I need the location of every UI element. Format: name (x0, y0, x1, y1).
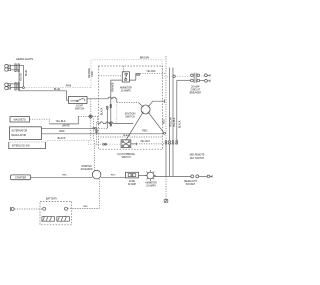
wire magneto solid run (50, 116, 79, 124)
svg-text:ALTERNATOR: ALTERNATOR (12, 129, 28, 132)
lamp HL1 (5, 64, 11, 71)
wire vertical mid cluster (92, 119, 94, 141)
connector pair (93, 127, 97, 129)
wire to terminal (199, 175, 207, 177)
wire PINK dotted headlight feed (24, 87, 91, 89)
svg-text:STARTER: STARTER (81, 165, 92, 168)
svg-text:BLACK: BLACK (20, 72, 23, 80)
bus wire v2 (169, 68, 171, 141)
wire fuse to ammeter (139, 175, 147, 177)
label headlight socket (184, 180, 198, 186)
svg-text:RED: RED (59, 130, 64, 133)
connector cluster (107, 104, 112, 109)
svg-text:HEADLIGHTS: HEADLIGHTS (16, 57, 33, 61)
battery BT1 (40, 198, 72, 225)
svg-text:ORANGE: ORANGE (88, 68, 91, 78)
wire diagonal left (126, 112, 143, 140)
wire ignition feed left (dashed) (117, 101, 139, 103)
wire dotted inner drop (116, 102, 118, 124)
wire interlock dotted to clutch switch (89, 141, 122, 145)
wire magneto dashed (30, 119, 50, 124)
svg-text:PINK: PINK (92, 71, 94, 77)
wire diagonal right (148, 112, 163, 132)
ammeter M1 (145, 170, 156, 181)
wire BLACK dotted (47, 141, 95, 143)
wire solid to circuit breaker CB2 (177, 79, 191, 81)
svg-text:MAGNETO: MAGNETO (14, 119, 26, 122)
connector row (165, 140, 178, 144)
label clutch/brake switch (117, 153, 135, 159)
wire BLUE solid to light switch (19, 91, 69, 100)
wire dashed to bus (140, 72, 166, 74)
svg-text:REGULATOR: REGULATOR (12, 134, 27, 137)
svg-text:BLUE: BLUE (26, 70, 28, 76)
wire dashed to connector (78, 115, 88, 117)
terminal battery ground (10, 207, 14, 211)
svg-text:WHITE: WHITE (62, 124, 70, 127)
lamp HL2 (5, 83, 11, 90)
terminal T1 (205, 74, 211, 77)
wire HL1 top (11, 64, 24, 66)
label fuse (128, 181, 137, 186)
label ammeter (145, 182, 157, 188)
connector pair (110, 123, 112, 126)
svg-text:RED: RED (164, 119, 166, 124)
connector J1 (headlight plug) (15, 64, 19, 90)
label circuit breaker (190, 85, 202, 94)
terminal T3 (207, 175, 212, 178)
svg-text:SWITCH: SWITCH (75, 107, 85, 110)
svg-text:YEL-BLK: YEL-BLK (140, 140, 150, 143)
engine box INTERLOCK (9, 142, 46, 149)
light switch SW1 (69, 96, 88, 103)
ground drop dashed (165, 176, 167, 199)
starter M2 (11, 175, 31, 180)
bus labels (rotated) (164, 117, 182, 128)
bus below connectors (165, 144, 167, 176)
svg-text:KEY SWITCH: KEY SWITCH (190, 158, 205, 160)
wire battery negative (15, 208, 43, 210)
node N1 (23, 87, 25, 89)
svg-text:HEADLIGHT: HEADLIGHT (184, 180, 198, 183)
node N3 (164, 132, 166, 134)
svg-text:RED: RED (62, 174, 67, 176)
svg-text:SWITCH: SWITCH (121, 157, 130, 159)
label ignition switch (125, 113, 136, 119)
fuse F1 (126, 172, 139, 178)
svg-text:SOLENOID: SOLENOID (81, 169, 93, 171)
quick disconnect (191, 175, 199, 178)
svg-text:BATTERY: BATTERY (46, 198, 58, 201)
wire dashed console lower (101, 136, 164, 138)
svg-text:CLUTCH/BRAKE: CLUTCH/BRAKE (117, 153, 135, 156)
wire starter to solenoid (31, 176, 93, 178)
connector pair (90, 115, 92, 119)
console dashed enclosure (99, 66, 163, 149)
svg-text:YEL-BLK: YEL-BLK (174, 117, 176, 127)
svg-text:BLACK: BLACK (100, 107, 103, 115)
svg-text:INTERLOCK SW.: INTERLOCK SW. (12, 145, 30, 147)
svg-text:BREAKER: BREAKER (190, 92, 202, 95)
wire HL1 bottom to HL2 (11, 70, 19, 91)
wire magneto continuation with hops (92, 116, 97, 123)
wire to circuit breaker CB1 (175, 75, 190, 77)
svg-text:BLUE: BLUE (54, 88, 61, 91)
wire WHITE (42, 127, 93, 129)
ignition switch U1 (141, 105, 150, 114)
wire HL2 bottom (11, 87, 23, 89)
svg-text:BLACK: BLACK (178, 120, 181, 128)
svg-text:RED: RED (83, 206, 88, 208)
svg-text:20 AMP: 20 AMP (128, 183, 137, 186)
label see remote (189, 155, 205, 160)
wire A1 bottom feed (111, 80, 123, 126)
connector pair (96, 130, 98, 133)
node N2 (173, 75, 175, 77)
wire A1 top stub (123, 66, 125, 72)
label ammeter (120, 87, 132, 93)
svg-text:SWITCH: SWITCH (125, 116, 135, 119)
svg-text:AMMETER: AMMETER (145, 182, 157, 185)
wire ammeter to terminals (154, 175, 191, 177)
svg-text:SOCKET: SOCKET (186, 184, 196, 186)
bus wire v1 (165, 56, 167, 140)
svg-text:BLACK: BLACK (123, 134, 131, 137)
connector pair (89, 116, 93, 118)
wire headlight bus (23, 65, 25, 86)
svg-text:PINK: PINK (66, 84, 72, 87)
svg-text:ORANGE: ORANGE (111, 82, 114, 92)
circuit breaker CB1 (191, 73, 200, 78)
svg-text:BROWN: BROWN (140, 57, 149, 60)
wire ignition NE to bus (148, 99, 164, 106)
wire A1 out (129, 73, 135, 80)
wire RED main run (42, 133, 164, 135)
wire solenoid out RED (101, 176, 126, 178)
svg-text:SEE REMOTE: SEE REMOTE (189, 155, 205, 157)
wire HL2 top (11, 83, 19, 85)
wire into A1 dashed (99, 75, 123, 77)
wire dashed drop to solenoid (94, 141, 96, 171)
terminal T2 (205, 79, 211, 82)
svg-text:FUSE: FUSE (129, 181, 136, 183)
wire BROWN dotted top run (91, 60, 173, 88)
svg-text:15 AMPS: 15 AMPS (146, 185, 156, 188)
svg-text:YEL-BLK: YEL-BLK (56, 120, 66, 123)
svg-text:15 AMPS: 15 AMPS (121, 90, 131, 93)
connector pair (103, 143, 107, 145)
wire CB1 to terminal (200, 75, 205, 77)
label solenoid (81, 165, 93, 171)
wire inner drop (106, 110, 108, 129)
bus wire v4 (176, 80, 178, 140)
engine box ALTERNATOR (10, 127, 42, 140)
wire CB2 to terminal (200, 80, 205, 82)
svg-text:YEL-BLK: YEL-BLK (146, 71, 156, 73)
wire vertical mid cluster 2 (96, 122, 98, 145)
wire solenoid to battery dashed (72, 179, 100, 209)
svg-text:STARTER: STARTER (15, 177, 26, 180)
wire SW1 out (87, 97, 117, 102)
wire drop dashed (90, 99, 92, 141)
wire dashed into console (96, 127, 107, 129)
wire battery positive (68, 207, 100, 209)
svg-text:RED: RED (111, 175, 116, 177)
clutch/brake switch SW2 (121, 140, 131, 148)
solenoid K1 (92, 170, 101, 179)
wire SW2 out (131, 143, 137, 146)
connector pair (136, 74, 140, 76)
circuit breaker CB2 (191, 78, 200, 83)
bus wire v3 (172, 68, 174, 141)
engine box MAGNETO (10, 117, 30, 122)
svg-text:BLACK: BLACK (58, 137, 66, 140)
ground G1 (164, 200, 168, 203)
svg-text:YELLOW: YELLOW (171, 117, 173, 127)
ammeter A1 (dash gauge) (122, 72, 129, 82)
label light switch (75, 104, 85, 110)
svg-text:RED: RED (142, 130, 147, 133)
